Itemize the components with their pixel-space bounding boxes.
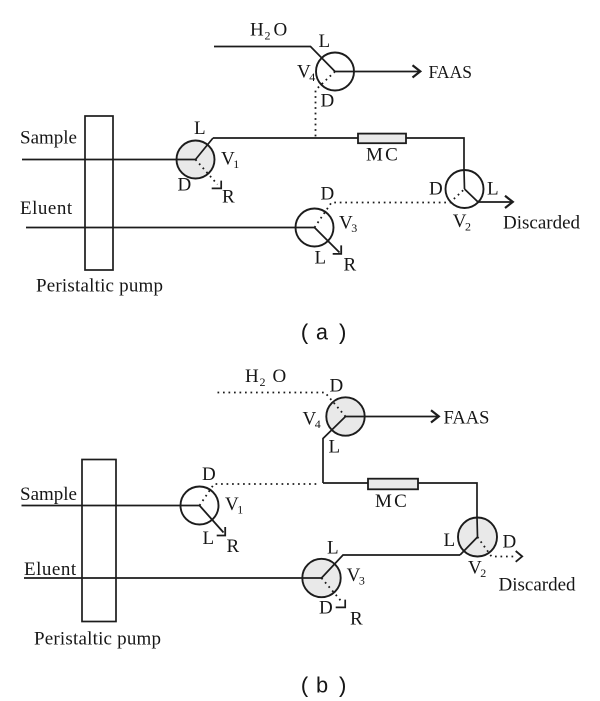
svg-text:Eluent: Eluent	[24, 559, 77, 580]
svg-text:L: L	[444, 530, 456, 551]
svg-text:L: L	[327, 538, 339, 559]
valve V2a body	[446, 170, 484, 208]
svg-text:D: D	[330, 376, 344, 397]
valve V2b body	[458, 518, 497, 557]
svg-text:2: 2	[260, 375, 266, 389]
solid arrow V1b to R	[200, 506, 224, 533]
wire V3b diagonal to L corner	[322, 555, 461, 578]
valve V1a body	[177, 141, 215, 179]
svg-text:): )	[336, 675, 349, 700]
svg-text:D: D	[202, 464, 216, 485]
svg-text:D: D	[321, 91, 335, 112]
svg-text:O: O	[273, 366, 287, 387]
dotted arrow V1a to R	[196, 160, 218, 185]
svg-text:Peristaltic pump: Peristaltic pump	[34, 629, 161, 650]
svg-text:D: D	[429, 179, 443, 200]
svg-text:MC: MC	[366, 145, 400, 166]
dotted wire V4a D to main line	[316, 72, 336, 138]
svg-text:): )	[336, 322, 349, 347]
svg-text:H: H	[250, 20, 264, 41]
arrowhead FAAS b	[431, 410, 439, 422]
svg-text:V2: V2	[468, 558, 486, 581]
svg-text:(: (	[299, 675, 312, 700]
dotted wire H2O to V4b D	[218, 393, 346, 417]
peristaltic pump b	[82, 460, 116, 622]
svg-text:D: D	[503, 532, 517, 553]
wire V2a vertical into center	[463, 170, 466, 189]
svg-text:D: D	[319, 598, 333, 619]
svg-text:L: L	[329, 437, 341, 458]
open arrowhead V1a R	[212, 181, 222, 189]
svg-text:Discarded: Discarded	[499, 575, 577, 596]
valve V4a body	[316, 53, 354, 91]
open arrowhead V2b D	[516, 551, 523, 562]
svg-text:L: L	[194, 118, 206, 139]
wire V4a to FAAS	[335, 71, 419, 73]
open arrowhead V3a R	[333, 245, 342, 254]
svg-text:b: b	[316, 675, 329, 700]
wire V4b L to main line	[323, 417, 346, 484]
wire V1a sample line	[22, 159, 196, 161]
svg-text:MC: MC	[375, 491, 409, 512]
svg-text:Sample: Sample	[20, 484, 77, 505]
svg-text:R: R	[344, 255, 357, 276]
svg-text:L: L	[319, 31, 331, 52]
dotted wire V3a D to V2a	[315, 189, 465, 228]
svg-text:L: L	[203, 528, 215, 549]
peristaltic pump a	[85, 116, 113, 270]
svg-text:D: D	[321, 184, 335, 205]
open arrowhead V3b R	[336, 600, 346, 608]
svg-text:FAAS: FAAS	[429, 62, 472, 82]
wire V1b sample line	[22, 505, 200, 507]
wire V4b to FAAS	[346, 416, 438, 418]
dotted arrow V3b to R	[322, 578, 342, 602]
svg-text:D: D	[178, 175, 192, 196]
valve V4b body	[326, 397, 364, 435]
wire eluent a	[26, 227, 315, 229]
valve V1b body	[181, 487, 219, 525]
svg-text:H: H	[245, 366, 259, 387]
svg-text:2: 2	[265, 29, 271, 43]
main wire b : to MC to V2b	[323, 483, 477, 518]
wire V2b diagonal to line	[460, 537, 478, 555]
dotted arrow V2b to D discarded	[478, 537, 517, 557]
wire V1a diagonal to L port	[196, 138, 214, 160]
valve V3a body	[296, 209, 334, 247]
svg-text:V1: V1	[221, 149, 239, 172]
svg-text:Eluent: Eluent	[20, 198, 73, 219]
svg-text:L: L	[315, 248, 327, 269]
svg-text:V2: V2	[453, 211, 471, 234]
svg-text:O: O	[274, 20, 288, 41]
svg-text:R: R	[227, 536, 240, 557]
svg-text:V1: V1	[225, 494, 243, 517]
solid arrow V3a to R	[315, 228, 340, 253]
arrowhead discarded a	[505, 196, 513, 208]
MC column b	[368, 479, 418, 490]
svg-text:L: L	[487, 179, 499, 200]
svg-text:V3: V3	[347, 565, 365, 588]
valve V3b body	[302, 559, 340, 597]
svg-text:V3: V3	[339, 212, 357, 235]
wire H2O to V4a	[214, 47, 335, 72]
MC column a	[358, 134, 406, 144]
svg-text:V4: V4	[303, 409, 321, 432]
open arrowhead V1b R	[217, 527, 226, 536]
svg-text:Peristaltic pump: Peristaltic pump	[36, 276, 163, 297]
wire V2b vertical into center	[476, 517, 479, 537]
svg-text:Discarded: Discarded	[503, 213, 581, 234]
svg-text:FAAS: FAAS	[444, 409, 490, 429]
svg-text:V4: V4	[297, 62, 315, 85]
svg-text:R: R	[350, 609, 363, 630]
wire eluent b	[24, 577, 322, 579]
wire V2a to discarded	[465, 189, 512, 202]
arrowhead FAAS a	[413, 65, 421, 77]
svg-text:a: a	[316, 322, 329, 347]
svg-text:R: R	[222, 187, 235, 208]
svg-text:(: (	[299, 322, 312, 347]
svg-text:Sample: Sample	[20, 127, 77, 148]
main wire a : V1 corner to MC to V2	[213, 138, 464, 171]
dotted wire V1b D to main line	[200, 484, 321, 506]
